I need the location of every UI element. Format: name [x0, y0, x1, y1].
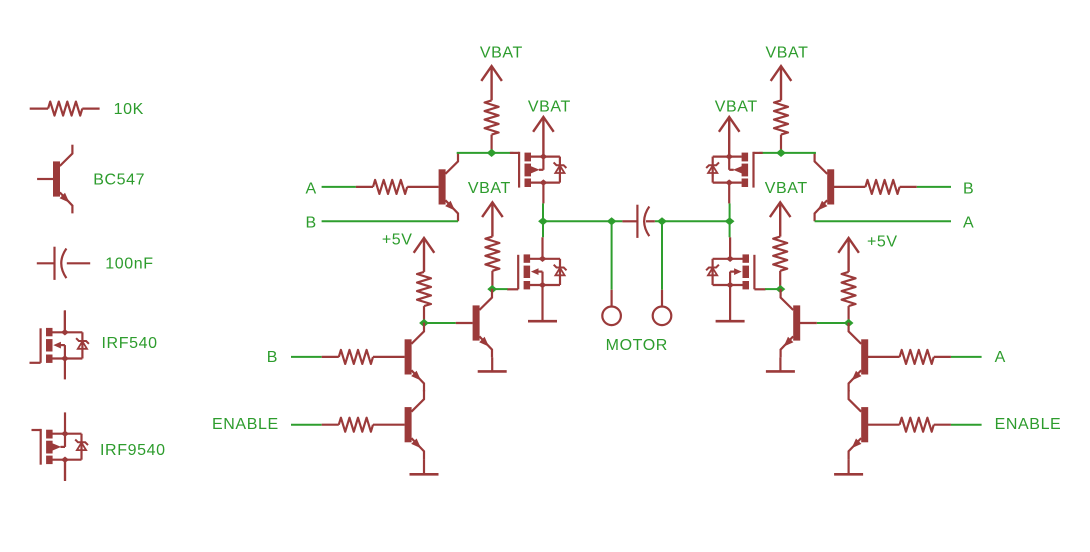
wire A-input net to Q1 base (L) [322, 186, 356, 188]
svg-text:B: B [963, 181, 974, 198]
wire Q2' base net (R) [817, 322, 849, 324]
legend n-mosfet IRF540 symbol [30, 310, 89, 379]
svg-text:VBAT: VBAT [528, 99, 571, 116]
n-mosfet T2' IRF540 low-side (R) [706, 237, 765, 289]
wire Q3' emitter to Q4' collector (R) [847, 389, 849, 392]
label VBAT (upper outer, L) [480, 45, 523, 62]
transistor Q2 BC547 (gate driver, L) [473, 289, 492, 358]
svg-text:IRF540: IRF540 [102, 335, 158, 352]
wire B input line (left) [322, 220, 458, 222]
capacitor C1 100nF (across motor) [637, 205, 649, 238]
power +5V arrow (R) [838, 238, 859, 272]
transistor Q3' BC547 (input, R) [849, 323, 869, 392]
ground (below Q2, L) [478, 370, 507, 373]
wire output net right segment [655, 220, 730, 222]
wire A-input net to Q3' (R) [951, 356, 982, 358]
label VBAT (P-MOSFET source, L) [528, 99, 571, 116]
legend p-mosfet IRF9540 symbol [32, 412, 89, 481]
junction output node (R) [725, 217, 735, 225]
wire motor terminal 2 drop [661, 221, 663, 289]
junction output node (L) [538, 217, 548, 225]
transistor Q4' BC547 (enable, R) [849, 390, 869, 459]
resistor R3' 10K pull-up (gate of IRF540, R) [773, 237, 787, 290]
wire lower gate net (L) [492, 288, 508, 290]
resistor R6 (series base resistor ENABLE, L) [322, 418, 405, 432]
label +5V (L) [382, 232, 413, 249]
resistor R1 10K pull-up (gate of upper P-MOSFET, L) [485, 100, 499, 152]
wire Q2 base stub (L) [456, 322, 473, 324]
label VBAT (mid, R) [765, 180, 808, 197]
wire upper gate net (R) [759, 152, 816, 154]
legend capacitor value label 100nF [105, 256, 153, 273]
n-mosfet T2 IRF540 low-side (L) [507, 237, 566, 289]
wire Q3 emitter to Q4 collector (L) [423, 389, 425, 392]
label MOTOR [606, 337, 668, 354]
motor terminal pad 2 [653, 290, 672, 325]
wire Q1' emitter to lower input line (R) [813, 220, 815, 222]
svg-text:VBAT: VBAT [480, 45, 523, 62]
capacitor C1 lead left [622, 220, 637, 222]
svg-text:ENABLE: ENABLE [995, 416, 1062, 433]
wire P-MOSFET drain to output node (R) [729, 203, 731, 237]
label B (upper right input) [963, 181, 974, 198]
transistor Q3 BC547 (input, L) [405, 323, 424, 392]
svg-text:100nF: 100nF [105, 256, 153, 273]
svg-text:A: A [306, 181, 317, 198]
resistor R4' 10K (+5V pull-up, R) [842, 272, 856, 323]
junction node1 (R) [776, 149, 786, 157]
wire P-MOSFET drain to output node (L) [542, 203, 544, 237]
svg-text:VBAT: VBAT [468, 180, 511, 197]
wire upper gate net (L) [457, 152, 514, 154]
ground (below Q4', R) [834, 473, 863, 476]
transistor Q1' BC547 (upper level shifter, R) [815, 153, 835, 222]
motor terminal pad 1 [602, 290, 621, 325]
resistor R1' 10K pull-up (gate of upper P-MOSFET, R) [774, 100, 788, 152]
label B (second left input) [306, 215, 317, 232]
svg-text:ENABLE: ENABLE [212, 416, 279, 433]
wire N-MOSFET source to ground (L) [541, 285, 543, 321]
wire A-input net to Q1' base (R) [917, 186, 951, 188]
wire Q2' base stub (R) [800, 322, 817, 324]
resistor R5' (series base resistor Q3', R) [868, 350, 951, 364]
svg-text:VBAT: VBAT [765, 45, 808, 62]
wire Q2' emitter to ground (R) [779, 357, 781, 371]
capacitor C1 lead right [646, 220, 655, 222]
wire ENABLE net to Q4 (L) [291, 424, 322, 426]
transistor Q4 BC547 (enable, L) [405, 390, 424, 459]
label A (second right input) [963, 215, 974, 232]
resistor R6' (series base resistor ENABLE, R) [868, 418, 951, 432]
wire Q1 emitter to lower input line (L) [457, 220, 459, 222]
wire Q2 base net (L) [424, 322, 456, 324]
resistor R4 10K (+5V pull-up, L) [417, 272, 431, 323]
ground (below IRF540, R) [716, 320, 745, 323]
svg-text:BC547: BC547 [93, 172, 145, 189]
legend resistor symbol [30, 102, 100, 116]
wire output net left segment [543, 220, 622, 222]
legend BC547 label [93, 172, 145, 189]
label VBAT (mid, L) [468, 180, 511, 197]
wire ENABLE net to Q4' (R) [951, 424, 982, 426]
resistor R2 (series base resistor upper transistor, L) [356, 180, 439, 194]
label A (upper left input) [306, 181, 317, 198]
legend IRF540 label [102, 335, 158, 352]
legend transistor BC547 symbol [37, 145, 72, 214]
legend IRF9540 label [100, 442, 166, 459]
wire A input line (right) [815, 220, 951, 222]
junction lower gate node (R) [776, 285, 786, 293]
wire motor terminal 1 drop [611, 221, 613, 289]
transistor Q2' BC547 (gate driver, R) [781, 289, 801, 358]
wire lower gate net (R) [765, 288, 781, 290]
power VBAT arrow (over R to upper gate net, L) [481, 66, 502, 100]
svg-text:VBAT: VBAT [765, 180, 808, 197]
wire Q4 emitter to ground (L) [423, 459, 425, 474]
power +5V arrow (L) [414, 238, 435, 272]
svg-text:A: A [995, 349, 1006, 366]
svg-text:B: B [306, 215, 317, 232]
resistor R5 (series base resistor Q3, L) [322, 350, 405, 364]
svg-text:B: B [267, 349, 278, 366]
junction lower gate node (L) [487, 285, 497, 293]
legend capacitor symbol [37, 247, 90, 280]
junction Q2' base node (R) [844, 319, 854, 327]
power VBAT arrow (over R to upper gate net, R) [771, 66, 792, 100]
label +5V (R) [867, 234, 898, 251]
svg-text:+5V: +5V [867, 234, 898, 251]
label B (lower left input) [267, 349, 278, 366]
ground (below Q2', R) [766, 370, 795, 373]
junction node1 (L) [487, 149, 497, 157]
wire Q4' emitter to ground (R) [847, 459, 849, 474]
label VBAT (upper outer, R) [765, 45, 808, 62]
svg-text:+5V: +5V [382, 232, 413, 249]
wire Q2 emitter to ground (L) [491, 357, 493, 371]
power VBAT arrow (P-MOSFET source, L) [533, 117, 554, 157]
power VBAT arrow (P-MOSFET source, R) [719, 117, 740, 157]
svg-text:A: A [963, 215, 974, 232]
label ENABLE (right) [995, 416, 1062, 433]
transistor Q1 BC547 (upper level shifter, L) [439, 153, 458, 222]
p-mosfet T1 IRF9540 high-side (L) [510, 152, 567, 204]
junction Q2 base node (L) [419, 319, 429, 327]
power VBAT arrow (over R to lower gate net, L) [482, 202, 503, 236]
junction motor terminal 1 node [607, 217, 617, 225]
svg-text:MOTOR: MOTOR [606, 337, 668, 354]
power VBAT arrow (over R to lower gate net, R) [770, 202, 791, 236]
resistor R3 10K pull-up (gate of IRF540, L) [485, 237, 499, 290]
ground (below IRF540, L) [528, 320, 557, 323]
svg-text:IRF9540: IRF9540 [100, 442, 166, 459]
resistor R2' (series base resistor upper transistor, R) [834, 180, 917, 194]
ground (below Q4, L) [410, 473, 439, 476]
wire B-input net to Q3 (L) [291, 356, 322, 358]
label A (lower right input) [995, 349, 1006, 366]
legend resistor value label 10K [114, 101, 144, 118]
wire N-MOSFET source to ground (R) [729, 285, 731, 321]
svg-text:VBAT: VBAT [715, 99, 758, 116]
junction motor terminal 2 node [657, 217, 667, 225]
p-mosfet T1' IRF9540 high-side (R) [706, 152, 763, 204]
label VBAT (P-MOSFET source, R) [715, 99, 758, 116]
label ENABLE (left) [212, 416, 279, 433]
svg-text:10K: 10K [114, 101, 144, 118]
